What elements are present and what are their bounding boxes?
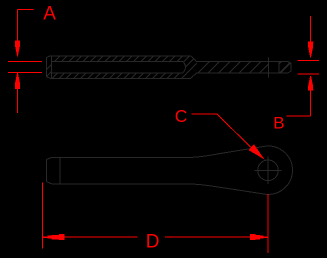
dim A upper stem [17,9,19,41]
dim D left arrowhead [43,234,64,240]
bore end arc [183,62,185,73]
hole centerline vertical [267,157,269,185]
svg-text:A: A [43,4,56,25]
svg-text:C: C [175,106,188,126]
dim B upper dim line [298,59,320,61]
svg-text:B: B [273,114,284,133]
hole centerline horizontal [255,169,282,171]
svg-text:D: D [146,232,160,253]
dim B lower stem [310,90,312,116]
stud body outline (section view, top) [46,56,291,78]
dim A lower stem [17,89,19,113]
eye terminal outline (side view, bottom) [46,146,292,194]
dim A leader horizontal [18,8,34,10]
dim D line left segment [43,236,137,238]
dim A lower dim line [8,71,42,73]
dim C leader diagonal [217,114,251,148]
dim C leader horizontal [192,113,218,115]
dim B up arrowhead [308,76,313,91]
dim B leader horizontal [287,115,311,117]
dim A up arrowhead [15,73,20,89]
dim D right arrowhead [250,234,268,240]
thread end face line [278,62,280,73]
dim A upper dim line [8,61,42,63]
wire bore bottom line [52,72,184,74]
thread runout line [268,58,270,78]
dim D left extension line [42,182,44,248]
counterbore face line [51,56,53,78]
dim A down arrowhead [15,41,20,57]
swage mark line [59,157,61,184]
section hatching, swage body [26,45,215,90]
dim B lower dim line [298,73,320,75]
dim D right extension line [267,194,269,253]
eye hole circle [258,160,279,181]
wire bore top line [52,61,184,63]
dim C arrowhead [249,144,265,159]
dim D line right segment [165,236,267,238]
section hatching, threaded stud [181,45,308,90]
dim B upper stem [310,16,312,42]
dim B down arrowhead [308,42,313,58]
